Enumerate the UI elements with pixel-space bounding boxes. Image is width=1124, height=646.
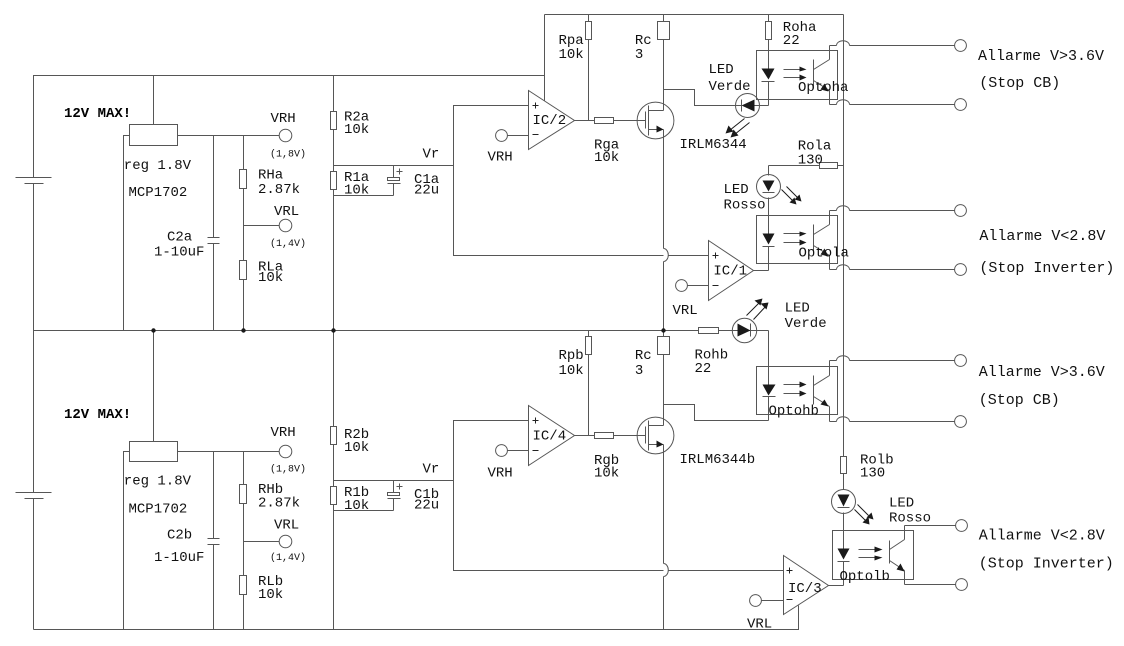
wire: mid bus (cell junction)	[34, 330, 769, 332]
resistor Rc 3 (A)	[658, 22, 670, 40]
LED D4 emission arrows	[855, 505, 874, 525]
wire: VRH to IC/4 - input	[508, 450, 529, 452]
svg-text:reg 1.8V: reg 1.8V	[124, 474, 192, 490]
wire: Rola to rail	[838, 165, 844, 167]
svg-text:IC/4: IC/4	[533, 428, 567, 444]
node VRL (A) terminal circle	[279, 219, 292, 232]
resistor R1b 10k	[331, 481, 337, 630]
svg-text:(Stop CB): (Stop CB)	[979, 75, 1060, 92]
svg-text:VRH: VRH	[271, 111, 296, 127]
wire: reg A output to VRH terminal	[178, 135, 280, 137]
wire: Rc-A drain line	[663, 15, 665, 22]
svg-text:Rpb: Rpb	[559, 348, 584, 364]
svg-text:10k: 10k	[344, 122, 369, 138]
svg-text:22u: 22u	[414, 183, 439, 199]
svg-text:Optohb: Optohb	[769, 404, 819, 420]
pin: IC/1 + mark	[713, 253, 719, 259]
svg-text:Verde: Verde	[709, 79, 751, 95]
wire: Q2 source down to bottom rail with hop	[663, 445, 665, 564]
pin: IC/4 - mark	[533, 450, 539, 452]
svg-text:LED: LED	[709, 62, 734, 78]
wire: Optohb emitter to terminal (hop over rail)	[830, 417, 955, 422]
svg-text:IRLM6344: IRLM6344	[680, 137, 747, 153]
svg-text:10k: 10k	[594, 150, 619, 166]
svg-text:3: 3	[635, 363, 643, 379]
resistor Rola 130	[820, 163, 838, 169]
wire: Optoha collector to terminal (hop over rail)	[830, 41, 955, 46]
svg-text:2.87k: 2.87k	[258, 182, 300, 198]
svg-text:reg 1.8V: reg 1.8V	[124, 158, 192, 174]
svg-text:Allarme V>3.6V: Allarme V>3.6V	[979, 364, 1105, 381]
svg-text:Allarme V>3.6V: Allarme V>3.6V	[978, 48, 1104, 65]
wire: 12V drop to regulator A	[153, 76, 155, 125]
svg-text:MCP1702: MCP1702	[129, 185, 188, 201]
LED D1 emission arrows	[726, 119, 750, 138]
capacitor C2a plates	[208, 238, 220, 244]
svg-text:Allarme V<2.8V: Allarme V<2.8V	[979, 528, 1105, 545]
wire: VRL to IC/1 - input	[688, 285, 709, 287]
svg-text:(1,4V): (1,4V)	[270, 552, 306, 564]
svg-text:10k: 10k	[258, 270, 283, 286]
wire: left rail between battery A and battery B	[33, 184, 35, 493]
node VRL (B) terminal circle	[279, 535, 292, 548]
transistor Q1 IRLM6344 (A)	[637, 102, 674, 139]
wire: bottom rail	[34, 606, 799, 630]
wire: Vr feed loop B	[454, 421, 664, 571]
svg-text:12V MAX!: 12V MAX!	[64, 106, 131, 122]
junction dot: RLa bottom	[241, 328, 245, 332]
svg-text:VRL: VRL	[673, 303, 698, 319]
wire: left rail below battery B	[33, 499, 35, 630]
svg-text:10k: 10k	[559, 47, 584, 63]
pin: IC/1 - mark	[713, 285, 719, 287]
wire: LED Rosso B to Optolb anode	[843, 513, 845, 549]
node: output terminal A1	[955, 40, 967, 52]
svg-text:RHa: RHa	[258, 167, 283, 183]
resistor Roha 22	[766, 15, 772, 51]
wire: VRH to IC/2 - input	[508, 135, 529, 137]
wire: Vr feed loop A	[454, 106, 664, 256]
svg-text:IRLM6344b: IRLM6344b	[680, 452, 756, 468]
resistor R2a 10k	[331, 76, 337, 166]
svg-text:Optola: Optola	[799, 245, 849, 261]
optocoupler Optoha	[757, 46, 838, 106]
node: output terminal B2	[955, 416, 967, 428]
svg-text:IC/3: IC/3	[788, 581, 822, 597]
wire: Q2 drain branch to Optohb cathode	[664, 405, 769, 421]
wire: Rola corner down to LED Rosso	[768, 166, 770, 176]
svg-text:2.87k: 2.87k	[258, 495, 300, 511]
svg-text:C2a: C2a	[167, 229, 192, 245]
resistor R2b 10k	[331, 331, 337, 481]
wire: 12V drop to regulator B	[153, 331, 155, 442]
capacitor C2b wire bottom	[213, 545, 215, 630]
node: output terminal A4	[955, 264, 967, 276]
LED D3 emission arrows	[747, 299, 769, 320]
svg-text:(Stop CB): (Stop CB)	[979, 392, 1060, 409]
wire: Optohb collector to terminal (hop over rail)	[830, 356, 955, 361]
wire: Q1 source down to bus with hop	[663, 130, 665, 249]
wire: node Vr (B)	[334, 480, 454, 482]
wire: LED Verde A to opto cathode	[760, 105, 769, 107]
svg-text:Optolb: Optolb	[840, 569, 890, 585]
svg-text:22: 22	[695, 361, 712, 377]
wire: IC/1 output to opto LED	[754, 270, 769, 272]
capacitor C1a 22u	[388, 166, 403, 196]
node VRL input circle at IC/3	[750, 595, 762, 607]
wire: Optolb collector to terminal	[905, 525, 956, 527]
node VRL input circle at IC/1	[676, 280, 688, 292]
op-amp IC/2	[529, 91, 575, 150]
LED D2 emission arrows	[782, 187, 802, 205]
battery BT1 (cell A)	[16, 178, 52, 184]
pin: IC/2 + mark	[533, 103, 539, 109]
transistor Q2 IRLM6344b	[637, 417, 674, 454]
pin: IC/3 - mark	[787, 599, 793, 601]
wire: Vr to IC/1 + after hop	[669, 255, 709, 257]
wire: VRL tap (A)	[244, 225, 280, 227]
junction dot: Q1 source / Rc-B	[661, 328, 665, 332]
wire: top output rail A	[545, 14, 844, 16]
wire: Rgb to gate	[614, 435, 646, 437]
node: output terminal A2	[955, 99, 967, 111]
capacitor C2a wire bottom	[213, 244, 215, 331]
svg-text:12V MAX!: 12V MAX!	[64, 407, 131, 423]
LED D4 Rosso (B)	[832, 490, 856, 514]
wire: VRL to IC/3 - input	[762, 600, 784, 602]
capacitor C2b wire top	[213, 452, 215, 539]
svg-text:MCP1702: MCP1702	[129, 501, 188, 517]
op-amp IC/4	[529, 406, 575, 466]
resistor Rpa 10k pull-up	[586, 15, 592, 121]
pin: IC/4 + mark	[533, 418, 539, 424]
svg-text:VRL: VRL	[274, 518, 299, 534]
wire: node Vr (A)	[334, 165, 454, 167]
wire: Rc-B drain line	[663, 331, 665, 337]
svg-text:Optoha: Optoha	[798, 80, 848, 96]
wire: left supply rail	[34, 76, 545, 178]
svg-text:1-10uF: 1-10uF	[154, 550, 204, 566]
svg-text:IC/2: IC/2	[533, 113, 567, 129]
node VRH input circle at IC/2	[496, 130, 508, 142]
svg-text:VRL: VRL	[747, 617, 772, 633]
svg-text:VRH: VRH	[488, 465, 513, 481]
wire: C1a bottom link	[334, 195, 394, 197]
resistor Rgb 10k	[595, 433, 614, 439]
wire: Rola feed	[769, 165, 820, 167]
node: output terminal B3	[956, 520, 968, 532]
svg-text:(1,8V): (1,8V)	[270, 148, 306, 160]
regulator U1 MCP1702 (A) body	[130, 125, 178, 146]
junction dot: 12V drop B	[151, 328, 155, 332]
svg-text:10k: 10k	[559, 363, 584, 379]
resistor Rohb 22	[699, 328, 719, 334]
wire: IC/3 output to opto LED	[829, 585, 844, 587]
optocoupler Optolb	[833, 526, 914, 586]
svg-text:VRH: VRH	[271, 425, 296, 441]
resistor RHa 2.87k	[240, 136, 247, 226]
svg-text:Vr: Vr	[423, 147, 440, 163]
pin: IC/2 - mark	[533, 134, 539, 136]
regulator U2 MCP1702 (B) body	[130, 442, 178, 462]
svg-text:3: 3	[635, 47, 643, 63]
node VRH (A) terminal circle	[279, 129, 292, 142]
wire: VRL tap (B)	[244, 541, 280, 543]
wire: reg B output to VRH terminal	[178, 451, 280, 453]
wire: Rga to gate	[614, 120, 646, 122]
wire: IC/4 output	[575, 435, 595, 437]
svg-text:Rosso: Rosso	[724, 197, 766, 213]
wire: IC/2 V+ supply stub	[544, 15, 546, 101]
svg-text:Rosso: Rosso	[889, 511, 931, 527]
node: output terminal B4	[956, 579, 968, 591]
op-amp IC/3	[784, 556, 829, 615]
svg-text:22u: 22u	[414, 498, 439, 514]
svg-text:1-10uF: 1-10uF	[154, 245, 204, 261]
battery BT2 (cell B)	[16, 493, 52, 499]
LED D3 Verde (B)	[732, 318, 756, 342]
svg-text:Vr: Vr	[423, 462, 440, 478]
svg-text:130: 130	[860, 466, 885, 482]
optocoupler Optola	[757, 211, 838, 271]
resistor Rpb 10k pull-up	[586, 331, 592, 436]
svg-text:(Stop Inverter): (Stop Inverter)	[979, 556, 1114, 573]
svg-text:LED: LED	[785, 300, 810, 316]
svg-text:IC/1: IC/1	[713, 264, 747, 280]
svg-text:(1,8V): (1,8V)	[270, 464, 306, 476]
resistor Rolb 130	[841, 457, 847, 490]
junction dot: divider junction	[331, 328, 335, 332]
svg-text:LED: LED	[724, 182, 749, 198]
svg-text:C2b: C2b	[167, 528, 192, 544]
LED D2 Rosso (A)	[757, 175, 781, 199]
svg-text:(1,4V): (1,4V)	[270, 238, 306, 250]
op-amp IC/1	[709, 241, 754, 301]
svg-text:10k: 10k	[344, 498, 369, 514]
capacitor C1b 22u	[388, 481, 403, 511]
svg-text:Allarme V<2.8V: Allarme V<2.8V	[979, 228, 1105, 245]
node VRH (B) terminal circle	[279, 445, 292, 458]
wire: Optolb emitter to terminal	[905, 584, 956, 586]
svg-text:10k: 10k	[594, 465, 619, 481]
node: output terminal A3	[955, 205, 967, 217]
wire: LED Rosso to Optola	[768, 198, 770, 234]
svg-text:(Stop Inverter): (Stop Inverter)	[979, 260, 1114, 277]
svg-text:10k: 10k	[258, 587, 283, 603]
LED D1 Verde (A)	[736, 94, 760, 118]
svg-text:VRH: VRH	[488, 150, 513, 166]
wire: Optola emitter to terminal (hop over rail)	[830, 265, 955, 270]
optocoupler Optohb	[757, 361, 838, 422]
resistor R1a 10k	[331, 166, 337, 331]
node VRH input circle at IC/4	[496, 445, 508, 457]
svg-text:130: 130	[798, 153, 823, 169]
capacitor C2b plates	[208, 539, 220, 545]
capacitor C2a wire top	[213, 136, 215, 238]
pin: IC/3 + mark	[787, 568, 793, 574]
svg-text:10k: 10k	[344, 182, 369, 198]
svg-text:Verde: Verde	[785, 316, 827, 332]
wire: bus LED to Optohb anode	[768, 331, 770, 385]
resistor RLb 10k	[240, 542, 247, 630]
svg-text:22: 22	[783, 33, 800, 49]
wire: Optola collector to terminal (hop over rail)	[830, 206, 955, 211]
resistor Rga 10k	[595, 118, 614, 124]
wire: Q1 drain branch to LED Verde	[664, 90, 737, 106]
svg-text:10k: 10k	[344, 440, 369, 456]
svg-text:VRL: VRL	[274, 204, 299, 220]
wire: Optoha emitter to terminal (hop over rail)	[830, 100, 955, 105]
resistor RHb 2.87k	[240, 452, 247, 542]
resistor Rc 3 (B)	[658, 337, 670, 355]
wire: reg B ground pin	[124, 452, 130, 630]
resistor RLa 10k	[240, 226, 247, 331]
wire: C1b bottom link	[334, 510, 394, 512]
node: output terminal B1	[955, 355, 967, 367]
svg-text:LED: LED	[889, 496, 914, 512]
wire: Vr to IC/3 + after hop	[669, 570, 784, 572]
svg-text:Rc: Rc	[635, 348, 652, 364]
wire: right distribution rail (top to Rolb)	[843, 15, 845, 457]
wire: IC/2 output	[575, 120, 595, 122]
wire: reg A ground pin	[124, 136, 130, 331]
